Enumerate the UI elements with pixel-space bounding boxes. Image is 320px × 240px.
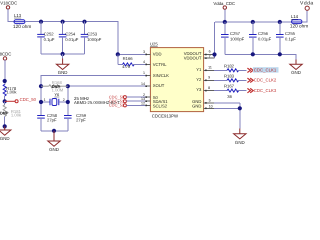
power symbol V18CDC (left edge) — [0, 51, 11, 60]
svg-text:Y2: Y2 — [196, 77, 202, 82]
offpage connector CDC_CLK3 — [247, 88, 276, 93]
resistor R182 on Y1 — [204, 63, 247, 72]
node C256 bottom — [251, 52, 255, 56]
node GND pins — [238, 106, 242, 110]
svg-text:1.00k: 1.00k — [11, 113, 22, 118]
svg-text:SCL/S2: SCL/S2 — [153, 104, 168, 109]
capacitor C253 — [81, 22, 102, 54]
svg-text:0.01µF: 0.01µF — [65, 37, 79, 42]
svg-text:U25: U25 — [150, 42, 158, 47]
svg-text:3: 3 — [143, 50, 145, 54]
svg-text:7: 7 — [209, 55, 211, 59]
svg-text:L14: L14 — [291, 14, 299, 19]
svg-text:27pF: 27pF — [47, 117, 57, 122]
wire R178 to node — [4, 96, 6, 101]
node junction cap bank gnd — [61, 52, 65, 56]
wire top rail to VDD pin3 — [25, 22, 146, 55]
svg-text:VDDOUT: VDDOUT — [184, 56, 202, 61]
svg-text:L13: L13 — [14, 13, 22, 18]
svg-text:C253: C253 — [87, 32, 98, 37]
inductor L13 — [13, 13, 31, 29]
svg-text:GND: GND — [58, 70, 68, 75]
power symbol Vdda — [300, 1, 314, 11]
node junction C254 — [61, 20, 65, 24]
power symbol V18CDC (top-left) — [0, 1, 17, 10]
svg-text:GND: GND — [192, 104, 201, 109]
svg-text:9: 9 — [208, 76, 210, 80]
svg-text:CDC_CLK3: CDC_CLK3 — [254, 88, 277, 93]
pin 3 stub — [143, 50, 150, 54]
pin 10 stub / GND wire — [204, 105, 240, 109]
pin 13 stub — [141, 97, 150, 101]
pin end markers — [145, 54, 147, 56]
svg-text:1: 1 — [44, 98, 46, 102]
svg-text:VCTRL: VCTRL — [153, 62, 167, 67]
node junction C253 — [82, 20, 86, 24]
capacitor C258 — [37, 113, 57, 131]
svg-text:R166: R166 — [123, 56, 134, 61]
offpage connector CDC_50 to S0 — [109, 94, 146, 99]
ground (cap bank) — [56, 54, 68, 75]
svg-text:6: 6 — [209, 50, 211, 54]
svg-text:V18CDC: V18CDC — [0, 51, 11, 56]
node crystal pin1 — [39, 100, 43, 104]
inductor L14 — [290, 14, 308, 29]
svg-text:8: 8 — [208, 86, 210, 90]
IC U25 CDCE913PW — [150, 42, 204, 119]
node R178 top — [3, 79, 7, 83]
node junction C252 — [39, 20, 43, 24]
node C255 top — [278, 20, 282, 24]
ground (right caps) — [290, 60, 302, 76]
svg-text:GND: GND — [0, 136, 10, 141]
pin 5 stub / GND wire — [204, 99, 240, 103]
wire GND pins down — [239, 103, 241, 129]
svg-text:C252: C252 — [44, 32, 55, 37]
svg-text:XOUT: XOUT — [153, 83, 165, 88]
svg-text:GND: GND — [291, 70, 301, 75]
svg-text:27pF: 27pF — [76, 117, 86, 122]
svg-text:120 ohm: 120 ohm — [290, 24, 308, 29]
node junction R166 tap — [116, 52, 120, 56]
svg-text:2: 2 — [63, 98, 65, 102]
wire V18CDC down to rail — [8, 9, 14, 22]
pin 4 stub — [143, 60, 150, 64]
svg-text:XIN/CLK: XIN/CLK — [153, 73, 169, 78]
svg-text:11: 11 — [208, 66, 212, 70]
svg-text:Vdda_CDC: Vdda_CDC — [213, 1, 235, 6]
node R168 right — [66, 84, 70, 88]
crystal Y6 — [41, 92, 68, 106]
svg-text:CDC_CLK1: CDC_CLK1 — [254, 68, 277, 73]
svg-text:12: 12 — [141, 101, 145, 105]
node CDC_50 tap — [3, 99, 7, 103]
wire crystal gnd bus — [41, 130, 68, 132]
node Vdda_CDC — [223, 20, 227, 24]
node C255 bottom — [278, 52, 282, 56]
resistor R181 (DNP) — [0, 101, 22, 126]
pin 6 stub — [204, 50, 215, 55]
pin 1 stub — [143, 71, 150, 75]
svg-text:C254: C254 — [65, 32, 76, 37]
svg-text:1: 1 — [143, 71, 145, 75]
wire down to R178 — [4, 60, 6, 84]
svg-text:1000pF: 1000pF — [230, 36, 245, 41]
crystal value labels — [74, 96, 120, 105]
svg-text:R183: R183 — [224, 73, 235, 78]
node VDDOUT join — [212, 52, 216, 56]
offpage connector CDC_CLK1 (highlighted) — [247, 67, 278, 73]
svg-text:4: 4 — [143, 60, 145, 64]
resistor R183 on Y2 — [204, 73, 247, 82]
svg-text:VDD: VDD — [153, 52, 162, 57]
resistor R167 on Y3 — [204, 84, 247, 99]
capacitor C256 — [249, 22, 272, 54]
svg-text:CDC_52: CDC_52 — [109, 103, 125, 108]
svg-text:5: 5 — [209, 99, 211, 103]
svg-text:1000pF: 1000pF — [87, 37, 102, 42]
node crystal pin2 — [66, 100, 70, 104]
svg-text:0.01µF: 0.01µF — [258, 36, 272, 41]
svg-text:CDC_CLK2: CDC_CLK2 — [254, 78, 277, 83]
svg-text:10: 10 — [209, 105, 213, 109]
wire right bottom bus — [225, 54, 296, 59]
wire L14 to Vdda — [302, 10, 307, 22]
offpage connector CDC_50 (left) — [5, 97, 37, 103]
svg-text:4.7k: 4.7k — [122, 64, 131, 69]
wire rail to VDDOUT pins — [214, 22, 216, 58]
wire XIN row — [41, 76, 146, 116]
node C256 top — [251, 20, 255, 24]
svg-text:V18CDC: V18CDC — [0, 1, 17, 6]
svg-text:Y1: Y1 — [196, 67, 202, 72]
node crystal gnd — [52, 129, 56, 133]
wire right top rail — [215, 21, 297, 23]
svg-text:14: 14 — [141, 82, 145, 86]
svg-text:GND: GND — [235, 140, 245, 145]
node R168 left — [39, 84, 43, 88]
svg-text:1.00k: 1.00k — [6, 90, 17, 95]
svg-text:Y6: Y6 — [54, 92, 60, 97]
svg-text:120 ohm: 120 ohm — [13, 24, 31, 29]
resistor R168 (DNP) across crystal — [41, 80, 68, 93]
capacitor C257 — [221, 22, 245, 54]
resistor R166 — [118, 54, 146, 69]
pin 14 stub — [141, 82, 150, 86]
pin 2 stub — [143, 93, 150, 97]
svg-text:0.1µF: 0.1µF — [44, 37, 55, 42]
wire Vdda_CDC drop — [224, 9, 226, 22]
pin 7 stub — [204, 55, 215, 59]
svg-text:R182: R182 — [224, 63, 235, 68]
wire bottom bus of cap bank — [41, 53, 85, 55]
svg-text:CDC_50: CDC_50 — [20, 97, 37, 102]
power symbol Vdda_CDC — [213, 1, 235, 9]
resistor R178 — [3, 84, 17, 96]
ground (IC) — [234, 129, 246, 145]
svg-text:36: 36 — [227, 94, 232, 99]
svg-text:0.1µF: 0.1µF — [285, 36, 296, 41]
svg-text:GND: GND — [49, 147, 59, 152]
offpage connector CDC_52 to SCL/S2 — [109, 103, 146, 108]
svg-text:R167: R167 — [224, 84, 235, 89]
pin 12 stub — [141, 101, 150, 105]
svg-text:DNP: DNP — [0, 110, 9, 115]
wire XOUT row — [68, 86, 146, 115]
offpage connector CDC_51 to SDA/S1 — [109, 98, 146, 103]
offpage connector CDC_CLK2 — [247, 78, 276, 83]
ground (bottom-left) — [0, 126, 11, 141]
capacitor C259 — [64, 113, 87, 131]
svg-text:Y3: Y3 — [196, 87, 202, 92]
capacitor C254 — [59, 22, 79, 54]
capacitor C255 — [276, 22, 296, 54]
ground (crystal) — [48, 131, 60, 152]
capacitor C252 — [37, 22, 55, 54]
svg-text:CDCE913PW: CDCE913PW — [152, 114, 179, 119]
node R181 bottom — [3, 124, 7, 128]
